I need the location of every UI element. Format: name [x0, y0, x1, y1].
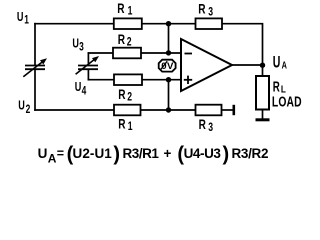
svg-text:R: R: [117, 0, 124, 16]
svg-text:R: R: [199, 116, 206, 132]
svg-text:U: U: [38, 146, 48, 161]
svg-text:=: =: [57, 147, 64, 161]
svg-text:1: 1: [128, 6, 133, 19]
svg-text:U2-U1: U2-U1: [73, 146, 113, 161]
svg-text:R3/R1: R3/R1: [123, 146, 160, 161]
svg-text:3: 3: [79, 41, 84, 54]
svg-text:LOAD: LOAD: [272, 93, 302, 110]
svg-text:3: 3: [208, 122, 213, 135]
svg-text:U4-U3: U4-U3: [184, 146, 222, 161]
svg-text:2: 2: [26, 104, 31, 117]
svg-text:+: +: [164, 146, 172, 161]
svg-text:U: U: [75, 81, 82, 95]
svg-text:2: 2: [127, 92, 132, 105]
svg-text:R3/R2: R3/R2: [232, 146, 269, 161]
svg-text:): ): [113, 143, 120, 165]
svg-text:A: A: [282, 59, 288, 71]
svg-text:U: U: [17, 10, 24, 24]
svg-text:R: R: [198, 1, 205, 17]
svg-text:1: 1: [128, 121, 133, 134]
svg-text:): ): [223, 143, 230, 165]
svg-text:U: U: [72, 37, 79, 51]
svg-text:R: R: [118, 31, 125, 47]
svg-text:A: A: [48, 151, 57, 165]
svg-text:U: U: [273, 52, 281, 71]
svg-text:2: 2: [127, 36, 132, 49]
svg-text:4: 4: [82, 85, 87, 98]
svg-text:U: U: [18, 99, 25, 113]
svg-text:R: R: [118, 116, 125, 132]
svg-text:R: R: [118, 86, 125, 102]
svg-text:3: 3: [208, 6, 213, 19]
svg-text:1: 1: [24, 14, 29, 27]
